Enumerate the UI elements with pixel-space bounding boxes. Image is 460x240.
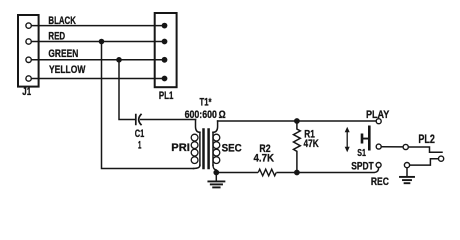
svg-text:S1: S1: [357, 148, 366, 159]
svg-text:T1*: T1*: [200, 97, 212, 109]
svg-text:J1: J1: [22, 86, 31, 98]
svg-text:PL2: PL2: [418, 132, 435, 146]
svg-text:SPDT: SPDT: [351, 160, 374, 172]
svg-text:RED: RED: [48, 31, 65, 43]
svg-text:PLAY: PLAY: [366, 109, 390, 121]
svg-text:REC: REC: [371, 176, 389, 188]
svg-text:4.7K: 4.7K: [254, 152, 275, 164]
svg-text:1: 1: [138, 139, 141, 151]
svg-text:PRI: PRI: [171, 142, 190, 154]
svg-text:YELLOW: YELLOW: [49, 64, 86, 76]
svg-text:BLACK: BLACK: [48, 15, 76, 27]
svg-text:GREEN: GREEN: [48, 48, 78, 60]
svg-text:PL1: PL1: [159, 90, 174, 102]
svg-text:47K: 47K: [304, 138, 319, 150]
svg-text:C1: C1: [135, 128, 145, 140]
svg-text:SEC: SEC: [222, 143, 242, 155]
svg-text:600:600 Ω: 600:600 Ω: [185, 109, 226, 121]
